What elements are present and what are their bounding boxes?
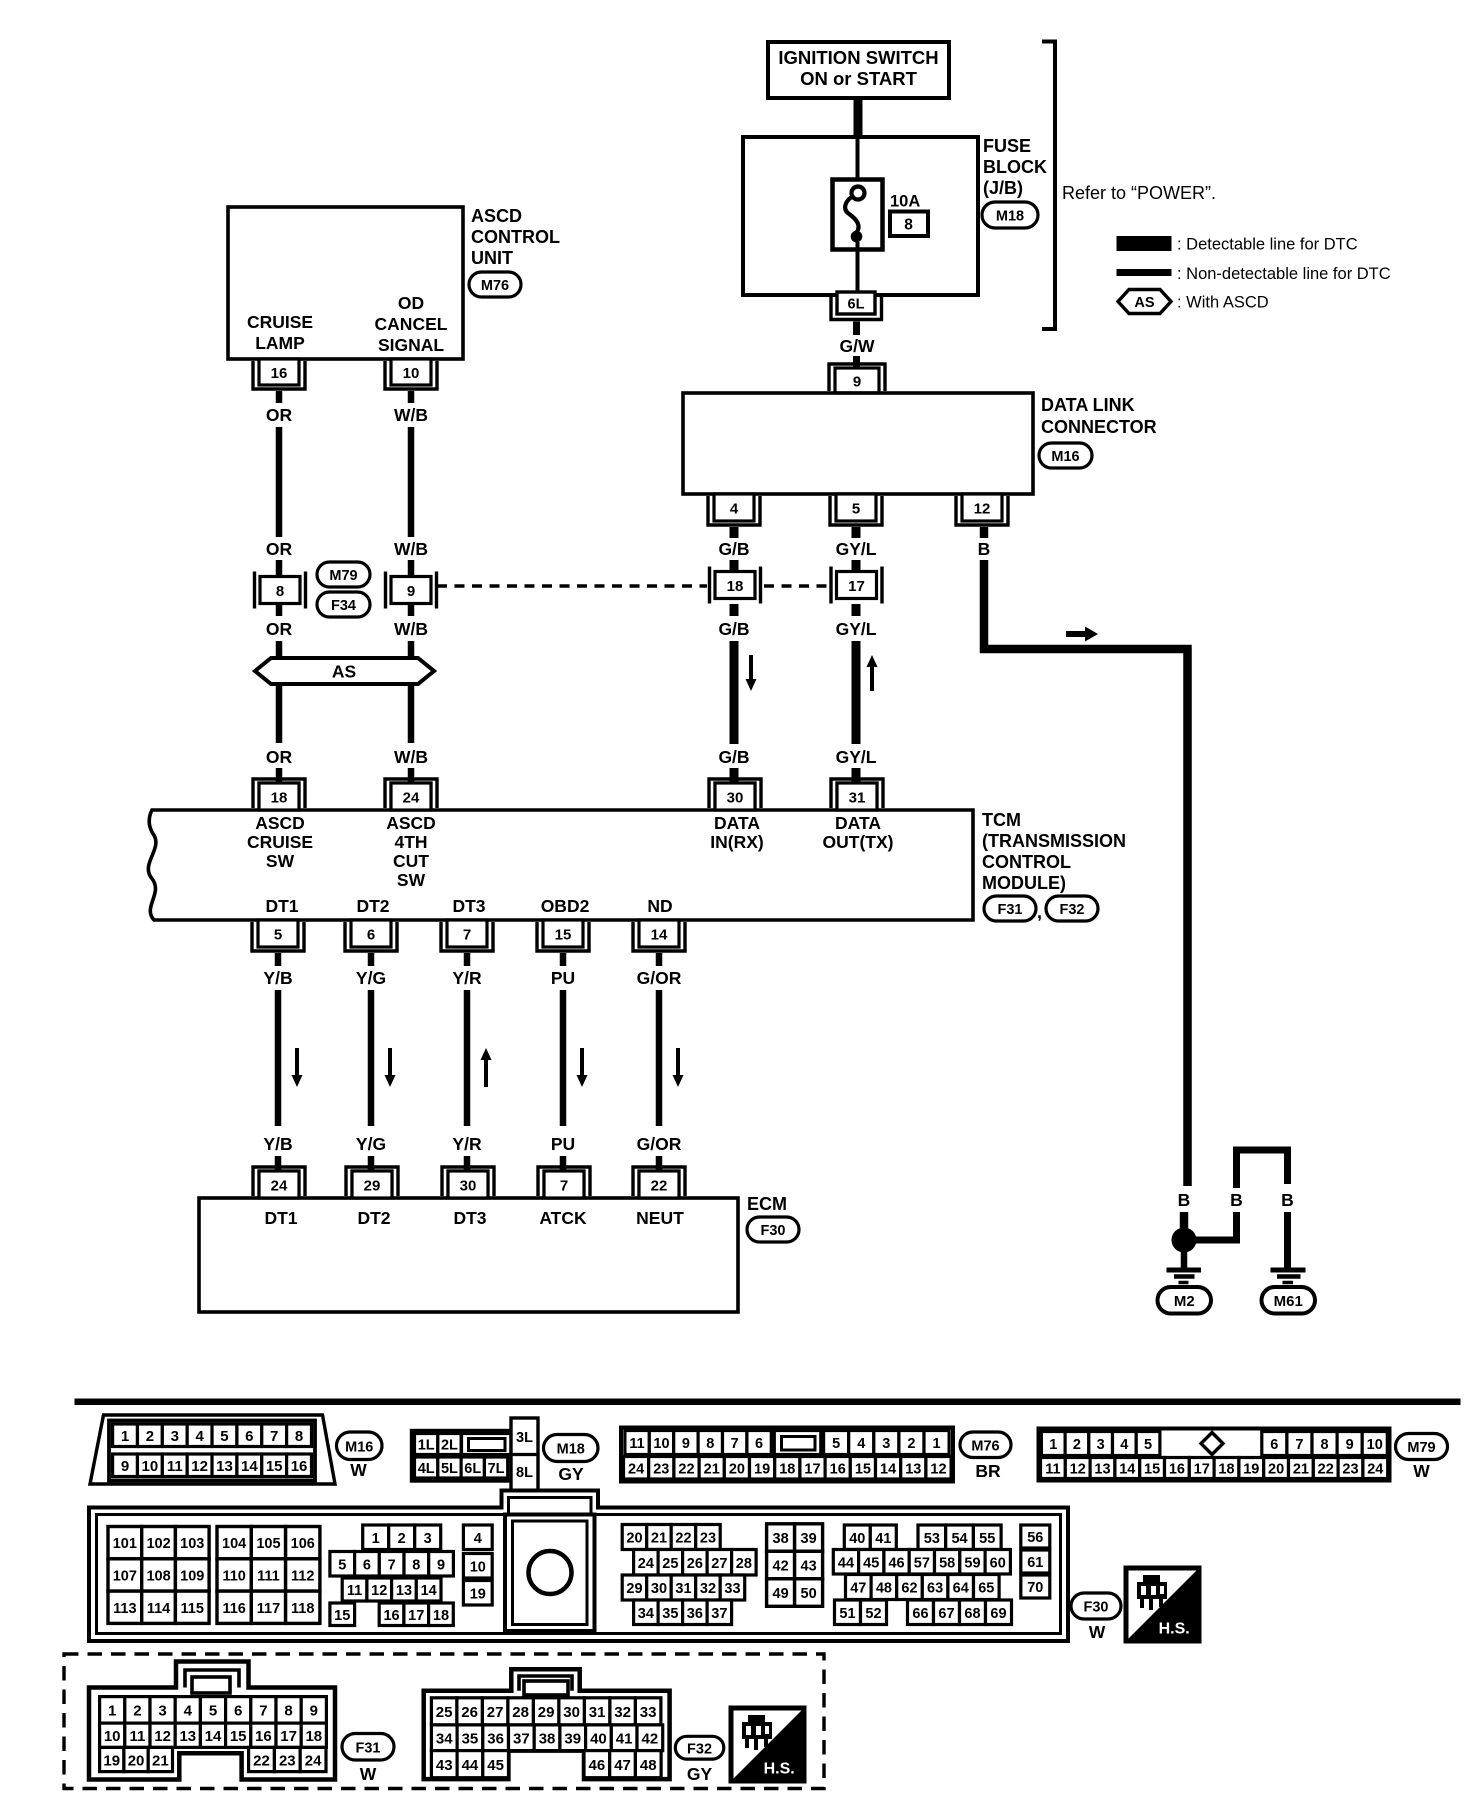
wire B stub below pin 12 xyxy=(980,527,989,538)
svg-text:55: 55 xyxy=(979,1531,995,1547)
svg-text:45: 45 xyxy=(487,1757,504,1774)
svg-text:G/B: G/B xyxy=(718,619,749,639)
svg-text:GY/L: GY/L xyxy=(836,619,877,639)
wire OR into AS band xyxy=(276,641,283,659)
svg-text:OR: OR xyxy=(266,619,293,639)
connector face F30 outer shell xyxy=(89,1491,1068,1642)
F30 pins 40 41 xyxy=(844,1525,870,1550)
pin 9 on data link connector xyxy=(835,368,879,393)
ECM pin 7 xyxy=(544,1171,584,1198)
svg-text:65: 65 xyxy=(978,1581,994,1597)
svg-text:21: 21 xyxy=(704,1461,720,1477)
svg-text:104: 104 xyxy=(222,1536,246,1552)
svg-text:22: 22 xyxy=(1318,1462,1334,1478)
svg-text:3L: 3L xyxy=(516,1430,533,1446)
svg-text:CONTROL: CONTROL xyxy=(982,852,1071,872)
svg-text:27: 27 xyxy=(487,1704,504,1721)
data link connector box M16 xyxy=(683,393,1033,494)
svg-text:10: 10 xyxy=(403,365,420,382)
svg-text:17: 17 xyxy=(408,1608,424,1624)
AS option band hexagon xyxy=(255,658,434,684)
svg-text:NEUT: NEUT xyxy=(636,1208,684,1228)
svg-text:11: 11 xyxy=(167,1458,183,1475)
ignition switch box xyxy=(768,42,949,98)
svg-text:W/B: W/B xyxy=(394,619,428,639)
svg-text:9: 9 xyxy=(1346,1437,1354,1453)
wire OR long segment xyxy=(276,427,283,537)
ground symbol M2 xyxy=(1167,1268,1202,1273)
svg-text:DATA: DATA xyxy=(714,813,760,833)
svg-text:ASCD: ASCD xyxy=(255,813,305,833)
svg-text:10: 10 xyxy=(104,1728,121,1745)
connector id F31 oval (face) xyxy=(342,1734,394,1761)
svg-text:5: 5 xyxy=(1144,1437,1152,1453)
svg-text:20: 20 xyxy=(626,1531,642,1547)
svg-text:25: 25 xyxy=(662,1556,678,1572)
legend detectable line sample xyxy=(1117,237,1171,251)
svg-text:10: 10 xyxy=(142,1458,159,1475)
svg-text:31: 31 xyxy=(849,789,866,806)
svg-text:6: 6 xyxy=(367,926,375,943)
svg-text:14: 14 xyxy=(880,1461,896,1477)
wire GY/L stub to pin 31 xyxy=(852,768,861,783)
svg-text:OD: OD xyxy=(398,293,424,313)
TCM pin 18 box overlay xyxy=(259,783,299,810)
wire into fuse xyxy=(856,139,860,188)
ECM pin 7 box overlay xyxy=(544,1171,584,1198)
svg-text:20: 20 xyxy=(729,1461,745,1477)
TCM pin 6 xyxy=(351,920,391,947)
TCM pin 30 xyxy=(715,783,755,810)
svg-text:8: 8 xyxy=(904,216,913,233)
svg-text:3: 3 xyxy=(424,1531,432,1547)
svg-text:ECM: ECM xyxy=(747,1194,787,1214)
ECM box xyxy=(199,1198,738,1312)
svg-text:16: 16 xyxy=(255,1728,272,1745)
F30 pins 29-33 xyxy=(622,1575,647,1600)
svg-text:59: 59 xyxy=(964,1555,980,1571)
wire Y/R stub to ECM xyxy=(464,1156,471,1171)
svg-text:15: 15 xyxy=(230,1728,247,1745)
svg-text:1: 1 xyxy=(372,1531,380,1547)
legend non-detectable line sample xyxy=(1117,270,1171,276)
svg-text:4L: 4L xyxy=(418,1461,435,1477)
inline connector 8 xyxy=(260,577,300,604)
F30 pins 34-37 xyxy=(634,1600,659,1625)
svg-text:58: 58 xyxy=(939,1555,955,1571)
svg-text:4: 4 xyxy=(1120,1437,1128,1453)
svg-text:23: 23 xyxy=(653,1461,669,1477)
svg-text:22: 22 xyxy=(651,1177,668,1194)
F32 keyway xyxy=(524,1681,568,1695)
wire G/OR from TCM xyxy=(656,953,663,966)
svg-text:23: 23 xyxy=(279,1752,296,1769)
wire G/W stub upper xyxy=(853,322,860,336)
svg-text:13: 13 xyxy=(396,1583,412,1599)
svg-text:1: 1 xyxy=(933,1436,941,1452)
svg-text:118: 118 xyxy=(291,1601,314,1617)
F30 pins 66-69 xyxy=(908,1600,934,1625)
svg-text:112: 112 xyxy=(291,1568,314,1584)
svg-text:34: 34 xyxy=(436,1731,453,1748)
svg-text:M18: M18 xyxy=(996,209,1024,225)
svg-text:26: 26 xyxy=(461,1704,478,1721)
svg-text:8: 8 xyxy=(284,1703,292,1720)
svg-text:107: 107 xyxy=(113,1568,137,1584)
svg-text:64: 64 xyxy=(953,1581,969,1597)
F31 pins 19-21 xyxy=(100,1747,124,1771)
wire OR stub xyxy=(276,560,283,578)
svg-text:Y/R: Y/R xyxy=(452,968,482,988)
svg-text:7L: 7L xyxy=(488,1461,505,1477)
svg-text:6L: 6L xyxy=(848,297,865,313)
svg-text:18: 18 xyxy=(433,1608,449,1624)
svg-text:CANCEL: CANCEL xyxy=(375,314,448,334)
svg-text:21: 21 xyxy=(651,1531,667,1547)
svg-text:102: 102 xyxy=(146,1536,170,1552)
svg-text:13: 13 xyxy=(216,1458,233,1475)
svg-text:25: 25 xyxy=(436,1704,453,1721)
wire Y/R from TCM xyxy=(464,953,471,966)
connector id M16 oval xyxy=(1039,443,1092,468)
DLC pin 5 xyxy=(836,494,876,521)
wire GY/L to TCM xyxy=(852,641,861,744)
svg-text:56: 56 xyxy=(1027,1530,1043,1546)
svg-text:4TH: 4TH xyxy=(394,832,427,852)
svg-text:12: 12 xyxy=(371,1583,387,1599)
svg-text:M16: M16 xyxy=(1051,449,1079,465)
svg-text:GY: GY xyxy=(558,1464,584,1484)
svg-text:5: 5 xyxy=(852,500,860,517)
svg-text:OR: OR xyxy=(266,405,293,425)
F30 pin 15 xyxy=(330,1603,355,1626)
svg-text:33: 33 xyxy=(640,1704,657,1721)
svg-text:Y/B: Y/B xyxy=(263,968,292,988)
wire junction to loop xyxy=(1194,1237,1240,1244)
svg-text:21: 21 xyxy=(1293,1462,1309,1478)
F31 keyway xyxy=(192,1677,230,1693)
flow arrow on Y/G xyxy=(385,1048,396,1087)
svg-text:W: W xyxy=(1089,1622,1106,1642)
svg-text:11: 11 xyxy=(629,1436,644,1452)
wire G/OR long segment xyxy=(656,990,663,1126)
svg-text:51: 51 xyxy=(839,1606,855,1622)
svg-text:B: B xyxy=(1230,1190,1243,1210)
svg-text:CRUISE: CRUISE xyxy=(247,312,313,332)
svg-text:41: 41 xyxy=(616,1731,633,1748)
wire Y/B from TCM xyxy=(275,953,282,966)
connector id M76 oval xyxy=(469,272,521,297)
svg-text:H.S.: H.S. xyxy=(764,1761,795,1778)
svg-text:F30: F30 xyxy=(761,1223,786,1239)
svg-text:M76: M76 xyxy=(971,1438,999,1454)
svg-text:30: 30 xyxy=(460,1177,477,1194)
svg-text:15: 15 xyxy=(266,1458,283,1475)
svg-text:Y/R: Y/R xyxy=(452,1134,482,1154)
svg-text:AS: AS xyxy=(1134,295,1154,311)
svg-text:47: 47 xyxy=(850,1581,866,1597)
svg-text:GY/L: GY/L xyxy=(836,539,877,559)
svg-text:8: 8 xyxy=(276,583,284,600)
svg-text:18: 18 xyxy=(271,789,288,806)
F31 pins row 2 xyxy=(100,1723,125,1747)
svg-text:6: 6 xyxy=(1270,1437,1278,1453)
ECM pin 30 xyxy=(448,1171,488,1198)
svg-text:4: 4 xyxy=(857,1436,865,1452)
ECM pin 29 xyxy=(352,1171,392,1198)
svg-text:9: 9 xyxy=(121,1458,129,1475)
svg-text:2: 2 xyxy=(907,1436,915,1452)
svg-text:G/OR: G/OR xyxy=(637,1134,682,1154)
svg-text:22: 22 xyxy=(675,1531,691,1547)
refer-to-POWER bracket xyxy=(1042,42,1055,330)
svg-text:: With ASCD: : With ASCD xyxy=(1177,294,1269,312)
svg-text:9: 9 xyxy=(310,1703,318,1720)
svg-text:7: 7 xyxy=(388,1557,396,1573)
svg-text:AS: AS xyxy=(332,662,356,682)
svg-text:,: , xyxy=(1037,902,1042,922)
svg-text:MODULE): MODULE) xyxy=(982,873,1066,893)
connector face M79 xyxy=(1039,1429,1390,1481)
wire PU stub to ECM xyxy=(560,1156,567,1171)
connector id F32 oval (face) xyxy=(675,1736,724,1759)
wire ignition switch to fuse block (thick) xyxy=(854,98,863,139)
svg-text:49: 49 xyxy=(773,1586,789,1602)
wire stub below splice 18 xyxy=(730,604,739,616)
B loop up-over wire xyxy=(1237,1150,1288,1188)
F30 pins 20-23 xyxy=(622,1525,647,1550)
F30 pins 1-3 xyxy=(363,1525,389,1550)
svg-text:: Detectable line for DTC: : Detectable line for DTC xyxy=(1177,236,1358,254)
wire left leg lower stub xyxy=(1233,1212,1240,1243)
svg-text:8: 8 xyxy=(706,1436,714,1452)
F30 pins 44-60 row xyxy=(833,1550,858,1575)
svg-text:M79: M79 xyxy=(1407,1440,1435,1456)
svg-text:7: 7 xyxy=(270,1428,278,1445)
svg-text:2: 2 xyxy=(398,1531,406,1547)
connector 6L on fuse block xyxy=(837,292,875,314)
svg-text:20: 20 xyxy=(128,1752,145,1769)
F30 pins 5-9 xyxy=(330,1552,355,1577)
svg-text:8L: 8L xyxy=(516,1465,533,1481)
connector id F30 oval (face) xyxy=(1071,1593,1121,1619)
svg-text:9: 9 xyxy=(407,583,415,600)
svg-text:Y/G: Y/G xyxy=(356,968,386,988)
svg-text:32: 32 xyxy=(614,1704,631,1721)
svg-text:18: 18 xyxy=(305,1728,322,1745)
svg-text:W: W xyxy=(360,1764,377,1784)
svg-text:LAMP: LAMP xyxy=(255,333,305,353)
svg-text:43: 43 xyxy=(801,1559,817,1575)
svg-text:35: 35 xyxy=(662,1606,678,1622)
svg-text:5: 5 xyxy=(209,1703,217,1720)
ASCD control unit box M76 xyxy=(228,207,463,359)
svg-text:G/OR: G/OR xyxy=(637,968,682,988)
M76 keyway xyxy=(774,1431,821,1455)
svg-text:19: 19 xyxy=(1243,1462,1259,1478)
svg-text:8: 8 xyxy=(412,1557,420,1573)
svg-text:18: 18 xyxy=(779,1461,795,1477)
fuse block J/B box M18 xyxy=(743,137,978,295)
svg-text:101: 101 xyxy=(113,1536,137,1552)
wire G/B stub to pin 30 xyxy=(730,768,739,783)
svg-text:19: 19 xyxy=(754,1461,770,1477)
svg-text:1: 1 xyxy=(108,1703,116,1720)
svg-text:UNIT: UNIT xyxy=(471,248,513,268)
svg-text:5: 5 xyxy=(220,1428,228,1445)
svg-text:61: 61 xyxy=(1027,1555,1043,1571)
svg-text:DT3: DT3 xyxy=(453,1208,486,1228)
svg-text:22: 22 xyxy=(678,1461,694,1477)
fuse number 8 box xyxy=(890,212,928,237)
svg-text:23: 23 xyxy=(700,1531,716,1547)
F30 pins 51 52 xyxy=(835,1600,861,1625)
svg-text:11: 11 xyxy=(347,1583,362,1599)
wire OR below AS band xyxy=(276,684,283,743)
flow arrow down on G/B xyxy=(746,655,757,691)
svg-text:15: 15 xyxy=(855,1461,871,1477)
svg-text:42: 42 xyxy=(773,1559,789,1575)
svg-text:40: 40 xyxy=(849,1531,865,1547)
F30 grid 104-118 xyxy=(217,1527,251,1559)
svg-text:38: 38 xyxy=(773,1531,789,1547)
svg-text:7: 7 xyxy=(560,1177,568,1194)
svg-text:30: 30 xyxy=(563,1704,580,1721)
svg-text:12: 12 xyxy=(930,1461,946,1477)
svg-text:39: 39 xyxy=(564,1731,581,1748)
fuse 10A #8 symbol xyxy=(833,180,883,250)
F30 pins 24-28 xyxy=(634,1550,659,1576)
svg-text:7: 7 xyxy=(731,1436,739,1452)
svg-text:15: 15 xyxy=(555,926,572,943)
svg-text:103: 103 xyxy=(180,1536,204,1552)
wire Y/G from TCM xyxy=(368,953,375,966)
TCM box (transmission control module) xyxy=(148,810,973,920)
F30 pins 53-55 xyxy=(918,1525,946,1550)
svg-text:44: 44 xyxy=(462,1757,479,1774)
svg-text:8: 8 xyxy=(295,1428,303,1445)
svg-text:Refer to “POWER”.: Refer to “POWER”. xyxy=(1062,183,1216,203)
svg-text:37: 37 xyxy=(513,1731,530,1748)
svg-text:110: 110 xyxy=(222,1568,245,1584)
svg-text:23: 23 xyxy=(1342,1462,1358,1478)
svg-text:60: 60 xyxy=(990,1555,1006,1571)
dashed link splice 9 to 18 xyxy=(437,584,707,587)
TCM pin 14 xyxy=(639,920,679,947)
svg-text:30: 30 xyxy=(727,789,744,806)
svg-text:2: 2 xyxy=(133,1703,141,1720)
connector id M18 oval (face) xyxy=(544,1435,599,1462)
svg-text:M79: M79 xyxy=(329,568,357,584)
svg-text:14: 14 xyxy=(205,1728,222,1745)
wire stub below splice 9 xyxy=(408,604,415,616)
svg-text:SIGNAL: SIGNAL xyxy=(378,335,444,355)
wire fuse to 6L xyxy=(856,242,860,293)
wire right leg to ground M61 xyxy=(1284,1212,1291,1268)
svg-text:3: 3 xyxy=(171,1428,179,1445)
svg-text:117: 117 xyxy=(257,1601,280,1617)
connector face M16 trapezoid xyxy=(90,1415,335,1484)
svg-text:6L: 6L xyxy=(464,1461,481,1477)
connector id F32 oval xyxy=(1046,896,1098,921)
svg-text:36: 36 xyxy=(487,1731,504,1748)
wire W/B stub xyxy=(408,560,415,578)
TCM pin 24 box overlay xyxy=(391,783,431,810)
svg-text:9: 9 xyxy=(437,1557,445,1573)
svg-text:6: 6 xyxy=(755,1436,763,1452)
svg-text:IN(RX): IN(RX) xyxy=(710,832,763,852)
legend AS hexagon xyxy=(1118,290,1171,314)
svg-text:DT2: DT2 xyxy=(357,1208,390,1228)
svg-text:12: 12 xyxy=(191,1458,208,1475)
svg-text:1L: 1L xyxy=(418,1438,435,1454)
svg-text:4: 4 xyxy=(730,500,739,517)
svg-text:20: 20 xyxy=(1268,1462,1284,1478)
svg-text:17: 17 xyxy=(804,1461,820,1477)
ECM pin 24 box overlay xyxy=(259,1171,299,1198)
F30 grid 101-115 xyxy=(108,1527,142,1559)
svg-text:W: W xyxy=(1413,1461,1430,1481)
svg-text:BLOCK: BLOCK xyxy=(983,157,1047,177)
svg-text:18: 18 xyxy=(727,578,744,595)
svg-text:46: 46 xyxy=(888,1555,904,1571)
F32 pins 46-48 xyxy=(584,1751,610,1778)
svg-text:OR: OR xyxy=(266,539,293,559)
svg-text:24: 24 xyxy=(271,1177,288,1194)
F30 pins 4 10 19 column xyxy=(463,1525,492,1550)
M79 diamond keyway xyxy=(1201,1433,1223,1455)
svg-text:M2: M2 xyxy=(1174,1293,1195,1310)
svg-text:7: 7 xyxy=(259,1703,267,1720)
dashed option box xyxy=(64,1654,824,1789)
svg-text:6: 6 xyxy=(363,1557,371,1573)
ECM pin 22 xyxy=(639,1171,679,1198)
svg-text:14: 14 xyxy=(241,1458,258,1475)
svg-text:47: 47 xyxy=(614,1757,631,1774)
wire W/B from pin 10 xyxy=(408,391,415,403)
svg-text:9: 9 xyxy=(853,373,861,390)
svg-text:10: 10 xyxy=(653,1436,669,1452)
svg-text:63: 63 xyxy=(927,1581,943,1597)
svg-text:DT3: DT3 xyxy=(452,896,485,916)
flow arrow up on GY/L xyxy=(867,655,878,691)
harness side badge H.S. (F30) xyxy=(1126,1568,1199,1641)
svg-text:26: 26 xyxy=(687,1556,703,1572)
svg-text:CONTROL: CONTROL xyxy=(471,227,560,247)
svg-text:10: 10 xyxy=(470,1559,486,1575)
wire Y/R long segment xyxy=(464,990,471,1126)
svg-text:29: 29 xyxy=(626,1581,642,1597)
svg-text:W/B: W/B xyxy=(394,405,428,425)
svg-text:24: 24 xyxy=(628,1461,644,1477)
svg-text:B: B xyxy=(1281,1190,1294,1210)
connector id F30 oval xyxy=(747,1217,799,1242)
svg-text:BR: BR xyxy=(975,1461,1001,1481)
svg-text:ND: ND xyxy=(647,896,672,916)
wire W/B stub to pin 24 xyxy=(408,768,415,783)
svg-text:31: 31 xyxy=(589,1704,606,1721)
svg-text:W/B: W/B xyxy=(394,539,428,559)
pin 16 cruise lamp xyxy=(259,359,299,385)
svg-text:24: 24 xyxy=(1367,1462,1383,1478)
section separator line xyxy=(75,1399,1460,1405)
TCM pin 31 xyxy=(837,783,877,810)
svg-text:12: 12 xyxy=(1070,1462,1086,1478)
svg-text:5: 5 xyxy=(274,926,282,943)
svg-text:5L: 5L xyxy=(441,1461,458,1477)
svg-text:67: 67 xyxy=(938,1606,954,1622)
svg-text:F34: F34 xyxy=(331,598,356,614)
